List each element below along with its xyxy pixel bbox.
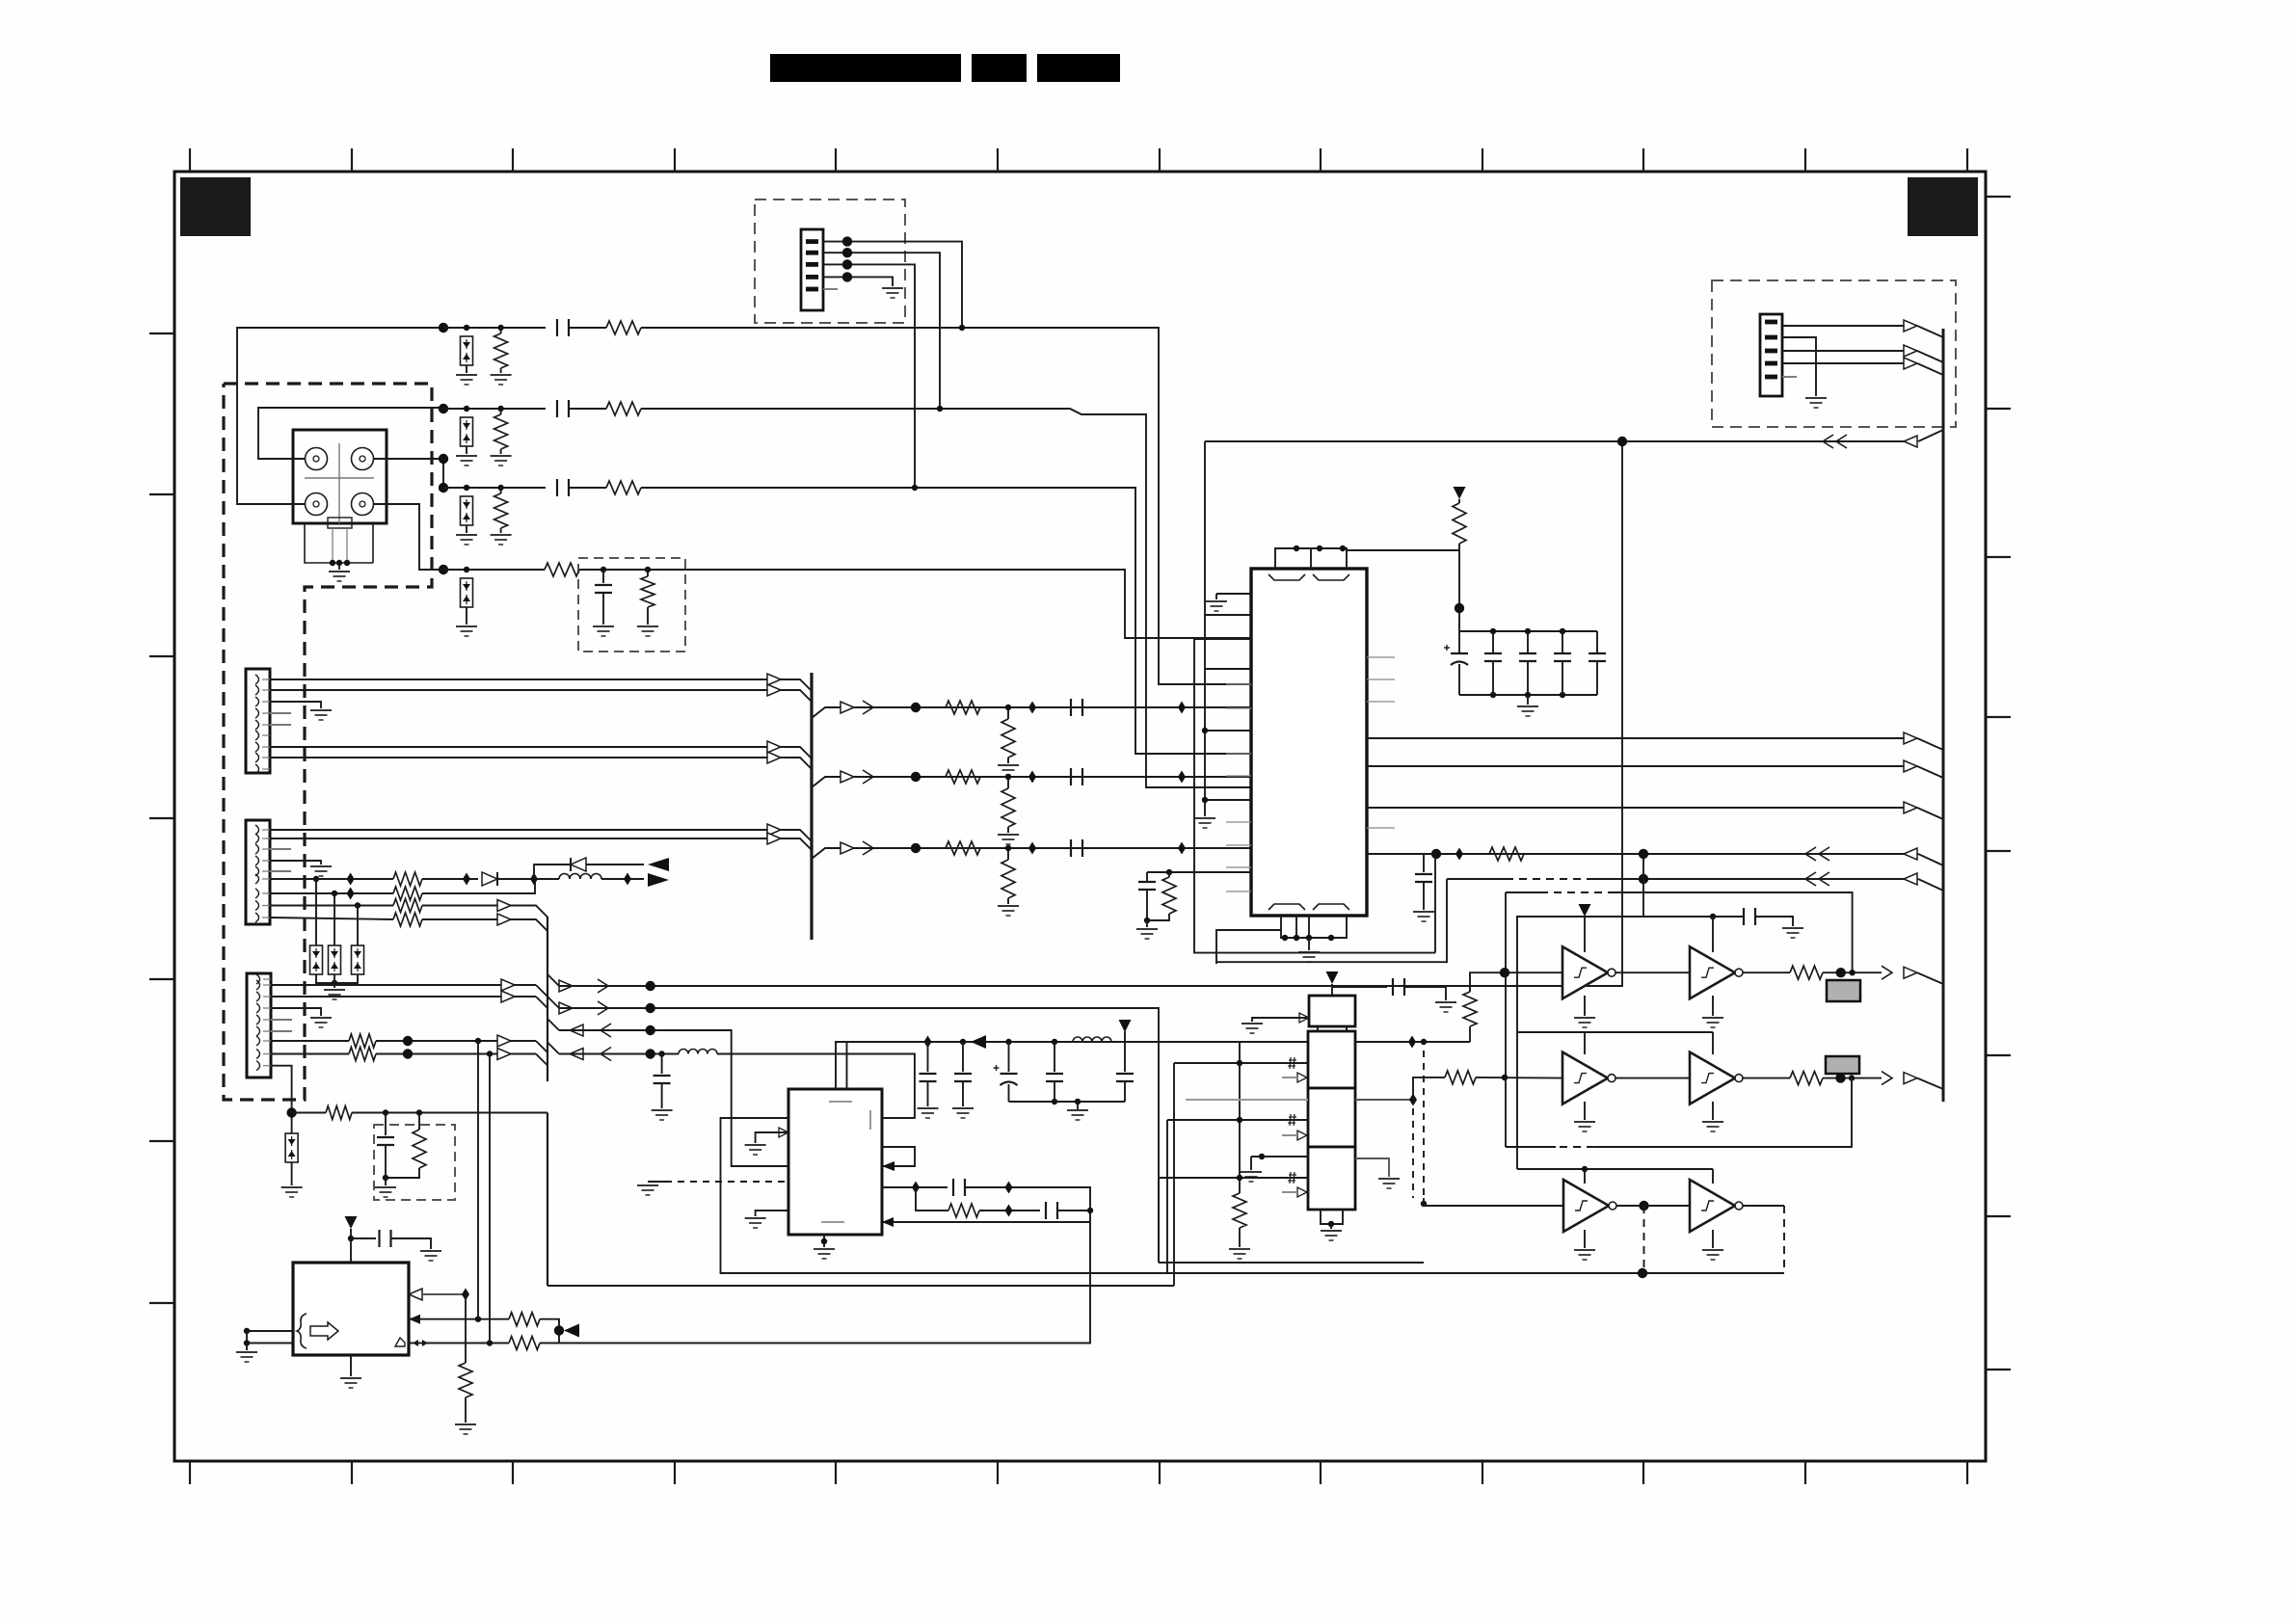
wire U4 b2 out up	[1413, 1078, 1445, 1100]
junction V1286 a	[1237, 1060, 1242, 1066]
capacitor C-F2	[377, 1137, 394, 1145]
wire row3 mid	[569, 487, 606, 489]
wire R25 lower	[1239, 1228, 1241, 1247]
wire U5A to U5B	[1615, 971, 1690, 973]
arrow CN3 pin2	[767, 833, 781, 844]
wire rail to vcc2	[1111, 1031, 1125, 1042]
wire row1 segment	[443, 327, 546, 329]
junction U1 bot c	[1306, 935, 1312, 941]
wire CN2 pin2	[270, 689, 767, 691]
arrow net458	[1904, 436, 1917, 447]
wire dashed drop a	[1412, 1108, 1414, 1198]
junction row1 CN1	[959, 325, 965, 331]
wire bus out diagonal row6	[812, 777, 841, 787]
ground CN2 pin3	[310, 710, 332, 720]
ground U4 b2 out2	[1378, 1179, 1400, 1188]
junction row3 feed	[439, 454, 448, 464]
wire C2b lower	[962, 1082, 964, 1106]
wire row A long	[559, 441, 1622, 986]
wire D3 to ground	[466, 525, 467, 533]
wire U2 clk gnd	[756, 1132, 788, 1143]
title text block (redacted bar 3)	[1037, 54, 1120, 82]
wire CN2 pin3 to ground	[270, 702, 321, 708]
junction U3 left b	[244, 1340, 250, 1345]
wire U1 bottom bracket	[1281, 916, 1347, 938]
arrow row6 out	[841, 771, 854, 783]
chevron row6	[863, 770, 873, 784]
capacitor C-bank0	[1484, 653, 1502, 661]
wire inv2b power	[1712, 1032, 1714, 1054]
wire cap bank top rail	[1459, 630, 1597, 632]
capacitor C-bank1	[1519, 653, 1536, 661]
capacitor C-bank2	[1554, 653, 1571, 661]
arrow row5 out	[841, 702, 854, 713]
junction row1 in	[1500, 968, 1509, 977]
junction esd tap pin6	[313, 876, 319, 882]
IC U1 top notch marks	[1268, 574, 1305, 580]
resistor R24 (pullup)	[1463, 992, 1477, 1026]
ground CN4 pin3	[310, 1018, 332, 1027]
junction rail cap3	[1052, 1039, 1057, 1045]
wire C-bank1 lower	[1527, 662, 1529, 695]
junction F1 res tap	[645, 567, 651, 572]
IC U1 left pin stubs	[1226, 594, 1251, 891]
wire esd gnd lead	[334, 974, 335, 988]
capacitor C-L2	[654, 1076, 671, 1083]
resistor R1a	[494, 333, 508, 368]
junction esd common	[332, 980, 337, 986]
connector CN3 (9-pin)	[246, 820, 270, 924]
clock pin marker U2	[779, 1128, 788, 1137]
wire J1 bottom-right to row4	[373, 504, 443, 570]
junction net912	[1639, 874, 1648, 884]
connector J1 (RCA jack block)	[293, 430, 387, 563]
bottom border tick marks	[190, 1461, 1967, 1484]
wire J1 bottom-left to row1	[237, 328, 443, 504]
wire rail2 drop	[1516, 917, 1518, 1169]
wire CN4 pin2	[271, 996, 536, 998]
junction net1321	[1638, 1268, 1647, 1278]
wire R21 lower	[465, 1397, 467, 1423]
arrow row2 out	[1904, 1073, 1917, 1084]
ground cap group	[1067, 1110, 1088, 1120]
wire C-pol lower	[1458, 664, 1460, 695]
resistor R17 (supply)	[1453, 503, 1466, 544]
junction CN1 pin1	[842, 236, 852, 246]
wire pin8 diagonal	[536, 1054, 547, 1066]
junction cap bank top 0	[1490, 628, 1496, 634]
resistor R5c	[946, 701, 980, 714]
wire U3 bottom stem	[350, 1355, 352, 1376]
ground U5A	[1574, 1018, 1595, 1027]
wire C24 out	[1755, 917, 1793, 926]
ground R2a	[491, 456, 512, 466]
dashed enclosure connector area (L-shaped)	[224, 384, 432, 1100]
wire R10 out	[422, 878, 478, 880]
wire F2 gnd lead	[385, 1178, 387, 1185]
wire row B long	[559, 1008, 1159, 1263]
wire U1 top pins bracket	[1275, 548, 1347, 569]
junction diamond row6 a	[1028, 771, 1036, 784]
wire R2a to ground	[500, 449, 502, 454]
IC U1 (main processor)	[1251, 569, 1367, 916]
ground CN1	[882, 288, 903, 298]
wire U4 b2 out	[1355, 1099, 1413, 1101]
ground D10	[281, 1187, 303, 1197]
arrow CN2 pin7	[767, 741, 781, 753]
arrow U3 pin top	[409, 1289, 422, 1300]
ground cap bank	[1517, 706, 1538, 716]
resistor R10	[393, 872, 422, 886]
dashed box filter F2	[374, 1125, 455, 1200]
resistor R15	[349, 1048, 376, 1061]
junction diamond U4 top out	[1408, 1036, 1416, 1049]
wire CN2 pin8 diagonal to bus	[781, 758, 812, 769]
wire CN2 pin7 diagonal to bus	[781, 747, 812, 758]
wire CN1 pin3	[823, 264, 915, 488]
arrow net912	[1904, 873, 1917, 885]
resistor R26	[1445, 1071, 1476, 1084]
wire inv1b gnd stem	[1712, 996, 1714, 1016]
wire row2 feedback end	[1506, 1146, 1556, 1148]
wire VCC3 stem	[350, 1229, 352, 1263]
junction U2 bottom	[821, 1238, 827, 1244]
power arrow VCC2	[1119, 1020, 1132, 1032]
arrow U2 pin1210 (input)	[882, 1161, 894, 1171]
junction diamond video node	[530, 873, 538, 886]
wire U4 out top	[1355, 1041, 1470, 1043]
junction fb node	[1087, 1208, 1093, 1213]
junction row1 out	[1836, 968, 1846, 977]
wire C2c lower	[1054, 1082, 1055, 1102]
chevron net912 b	[1819, 872, 1829, 886]
wire U1 pin830g	[1205, 799, 1251, 801]
wire U3 pin bot	[292, 1343, 294, 1344]
wire net912 b	[1592, 878, 1918, 880]
arrow row D	[570, 1049, 583, 1060]
junction J1 shield a	[330, 560, 335, 566]
wire U5B out	[1743, 971, 1790, 973]
junction cap bank top 2	[1560, 628, 1565, 634]
ground U4 bottom	[1321, 1231, 1342, 1240]
wire C-pol leads	[1458, 631, 1460, 652]
junction cap bank bottom 0	[1490, 692, 1496, 698]
capacitor C24 (series)	[1744, 908, 1755, 925]
wire row2 diagonal	[1917, 1078, 1943, 1089]
wire C23 out	[1404, 987, 1446, 1000]
chevron row C	[601, 1024, 611, 1037]
wire CN3 pin2	[270, 838, 767, 839]
wire inv1a gnd stem	[1584, 996, 1586, 1016]
stub CN4 pin5	[271, 1030, 292, 1032]
IC U4 notch links	[1317, 1026, 1319, 1031]
junction U4 b3 gnd	[1259, 1154, 1265, 1159]
capacitor C-bank3	[1589, 653, 1606, 661]
power arrow VCC5	[1579, 904, 1591, 917]
wire U1 top to supply	[1347, 550, 1459, 631]
wire net912 a	[1447, 878, 1506, 880]
wire CN5 pin4 diagonal	[1917, 363, 1943, 375]
junction row1 res tap	[497, 325, 503, 331]
wire U2 out1232	[882, 1186, 948, 1188]
chevron net458 a	[1823, 435, 1833, 448]
ground D1	[456, 375, 477, 385]
junction F1 cap tap	[601, 567, 606, 572]
wire C-bank3 lower	[1596, 662, 1598, 695]
wire R13 to bus diagonal	[422, 919, 547, 931]
wire row4 segment	[443, 569, 545, 571]
wire CN3 pin3 to ground	[270, 861, 321, 865]
wire R5d gnd lead	[1007, 758, 1009, 763]
wire C-bank3 leads	[1596, 631, 1598, 652]
resistor R27	[1790, 966, 1823, 979]
junction row4 esd tap	[464, 567, 469, 572]
schmitt inverter U5B	[1690, 946, 1743, 998]
wire CN1 pin1	[823, 242, 962, 328]
resistor R21	[459, 1363, 472, 1397]
bus B3 (vertical)	[1942, 329, 1945, 1102]
wire inv1b power	[1712, 917, 1714, 952]
wire row2 mid	[569, 408, 606, 410]
arrow CN5 pin4	[1904, 358, 1917, 369]
resistor R20	[948, 1204, 979, 1217]
stub U4 b3 clk	[1282, 1191, 1297, 1193]
power arrow VCC1	[1454, 487, 1466, 499]
junction row3 mid	[1639, 1201, 1648, 1211]
wire U1 out1 diagonal	[1917, 738, 1943, 750]
ground D5-D7	[324, 990, 345, 999]
wire U5C to U5D	[1615, 1078, 1690, 1079]
IC U2 inner mark right	[869, 1110, 871, 1130]
wire U1 pin gnd top-left	[1216, 593, 1251, 595]
wire row3 in	[1424, 1204, 1563, 1206]
junction esd tap pin8	[355, 902, 360, 908]
junction J1 shield c	[344, 560, 350, 566]
ground U2 clk	[745, 1145, 766, 1155]
arrow U1 out1	[1904, 732, 1917, 744]
junction U1 top c	[1340, 545, 1346, 551]
IC U3	[293, 1263, 409, 1355]
wire CN5 pin1	[1782, 325, 1904, 327]
junction diamond R20	[1004, 1205, 1012, 1217]
wire row4 to IC1	[579, 570, 1251, 638]
junction diamond U3 top	[462, 1289, 469, 1301]
wire row2 feedback dashed	[1556, 1146, 1594, 1148]
wire net886	[1367, 853, 1918, 855]
ground C-F1	[593, 626, 614, 636]
wire CN2 pin2 diagonal to bus	[781, 690, 812, 702]
wire CN1 pin2	[823, 253, 940, 409]
dashed box filter F1	[578, 558, 685, 652]
wire V508 up	[489, 1054, 491, 1344]
wire V1239 down	[1194, 639, 1435, 953]
wire RC bl gnd lead	[1146, 920, 1148, 927]
junction cap group a	[1052, 1099, 1057, 1104]
wire R3a to ground	[500, 528, 502, 533]
wire R18 lead	[1168, 872, 1170, 877]
inductor L3	[1073, 1037, 1111, 1042]
junction F2 res tap	[416, 1109, 422, 1115]
arrow rail (solid left)	[971, 1035, 986, 1049]
wire U3 pin mid	[409, 1318, 509, 1320]
junction V1286 b	[1237, 1117, 1242, 1123]
top border tick marks	[190, 148, 1967, 173]
junction net886 b	[1639, 849, 1648, 859]
wire C2a lower	[927, 1082, 929, 1106]
junction R15 node	[403, 1049, 413, 1058]
wire C19 lower	[1423, 883, 1425, 910]
wire U3 pin top	[422, 1293, 466, 1295]
wire VCC1 lead	[1458, 499, 1460, 503]
pin glyph U4 b3	[1288, 1172, 1296, 1184]
wire CN4 pin2 diagonal	[536, 997, 547, 1008]
ground R25	[1229, 1249, 1250, 1259]
ground C2b	[952, 1108, 974, 1118]
bus B2 (vertical collector, lower)	[547, 1113, 548, 1287]
capacitor C2c	[1046, 1074, 1063, 1081]
wire U1 gnd pins vertical	[1204, 669, 1206, 816]
resistor R12	[393, 899, 422, 913]
connector CN2 (9-pin)	[246, 669, 270, 774]
ground U5E	[1574, 1250, 1595, 1260]
arrow net886	[1904, 848, 1917, 860]
wire C-bank2 lower	[1562, 662, 1563, 695]
power arrow VCC4	[1326, 971, 1339, 984]
ground R6d	[998, 835, 1019, 844]
junction CN1 pin2	[842, 248, 852, 257]
diode pack D6 (ESD)	[329, 945, 341, 974]
left border tick marks	[149, 333, 174, 1303]
wire V1489 link	[1434, 854, 1436, 953]
wire row5 rc	[854, 706, 1251, 708]
wire D8 out	[497, 878, 559, 880]
wire C22 out	[391, 1238, 432, 1249]
junction U1 bot a	[1282, 935, 1288, 941]
ground R21	[455, 1424, 476, 1434]
wire R3a lead	[500, 488, 502, 493]
wire CN3 pin1 diagonal to bus	[781, 830, 812, 841]
stub U4 b1 clk	[1282, 1077, 1297, 1078]
wire row D long	[559, 1053, 679, 1055]
arrow U3 pin mid (input)	[409, 1315, 420, 1324]
jumper pad row2	[1826, 1056, 1859, 1074]
capacitor C7c (series)	[1071, 839, 1082, 857]
wire fb return	[882, 1221, 1090, 1223]
wire R23 out	[540, 1343, 559, 1344]
arrow CN4 pin2	[501, 991, 515, 1002]
arrow row pin6	[497, 1035, 511, 1047]
diode pack D4 (ESD)	[461, 578, 473, 607]
wire drop join	[1423, 1198, 1425, 1204]
wire U1 out2 diagonal	[1917, 766, 1943, 778]
wire CN2 pin7	[270, 746, 767, 748]
wire row1 loop top	[1506, 891, 1540, 893]
wire R18 lower	[1147, 914, 1169, 920]
capacitor C18	[1138, 882, 1156, 890]
ground U3 left	[236, 1352, 257, 1362]
ground U3 bottom	[340, 1378, 361, 1388]
capacitor C-pol (electrolytic)	[1444, 645, 1468, 665]
wire row1 loop dashed	[1540, 891, 1613, 893]
diode pack D1 (ESD)	[461, 336, 473, 365]
junction V508 row	[487, 1051, 493, 1056]
capacitor C2d	[1116, 1074, 1134, 1081]
arrow clamp in (solid left)	[648, 858, 669, 871]
stub CN2 pin5	[270, 724, 291, 726]
diode pack D3 (ESD)	[461, 496, 473, 525]
wire U2 bottom stem	[823, 1235, 825, 1247]
ground U4 top pin	[1241, 1024, 1263, 1033]
wire U4 b3 in	[1159, 1177, 1308, 1179]
IC U4 block3	[1308, 1147, 1355, 1210]
junction node N9	[286, 1107, 296, 1117]
wire CN2 pin8	[270, 757, 767, 758]
junction diamond row6 b	[1178, 771, 1186, 784]
wire D1 to ground	[466, 365, 467, 373]
wire V1211	[1166, 1120, 1168, 1273]
wire V483 down	[465, 1294, 467, 1363]
ground R1a	[491, 375, 512, 385]
wire bus row D diagonal	[547, 1043, 559, 1054]
wire esd drop pin7	[334, 893, 335, 945]
junction diamond CN3 pin7	[347, 888, 355, 900]
wire U2 dashed pin end	[648, 1181, 665, 1183]
junction diamond row5 a	[1028, 702, 1036, 714]
capacitor C-pol2 (electrolytic)	[994, 1065, 1018, 1085]
arrow U2 pin1268 (input)	[882, 1217, 894, 1227]
power arrow VCC3	[345, 1216, 358, 1229]
wire R15 out	[376, 1053, 536, 1055]
wire R6d gnd lead	[1007, 827, 1009, 833]
wire C23 tap	[1332, 986, 1387, 988]
junction R5d tap	[1005, 705, 1011, 710]
wire U1 pin663 left	[1194, 638, 1251, 640]
wire R24 bottom	[1469, 1026, 1471, 1042]
wire R-F2 leads	[418, 1113, 420, 1131]
wire R7d lead	[1007, 848, 1009, 860]
wire net458	[1205, 440, 1841, 442]
wire R1a lead	[500, 328, 502, 333]
wire inv2a power	[1584, 1032, 1586, 1054]
resistor R6c	[946, 770, 980, 784]
ground R7d	[998, 906, 1019, 916]
wire R28 out	[1823, 1078, 1882, 1079]
wire CN5 pin3 diagonal	[1917, 351, 1943, 362]
wire U1 out2	[1367, 765, 1904, 767]
junction net458	[1617, 437, 1627, 446]
wire cap group bottom rail	[1009, 1101, 1126, 1103]
wire R12 to bus diagonal	[422, 906, 547, 918]
stub U4 b2 in-through	[1186, 1099, 1308, 1101]
wire N9 to bus	[292, 1112, 326, 1114]
wire C2c lead	[1054, 1042, 1055, 1072]
capacitor C2b	[954, 1074, 972, 1081]
capacitor C5c (series)	[1071, 699, 1082, 716]
wire inv1a power	[1584, 917, 1586, 952]
wire esd common	[316, 974, 358, 983]
wire U1 pin758g	[1205, 730, 1251, 732]
arrow CN3 pin1	[767, 824, 781, 836]
wire U4 bottom gnd lead	[1330, 1224, 1332, 1229]
diode D9 (reversed)	[570, 858, 572, 871]
IC U2	[788, 1089, 882, 1235]
junction row3 res tap	[497, 485, 503, 491]
wire U1 bottom gnd lead	[1308, 938, 1310, 950]
wire net458 right	[1841, 440, 1904, 442]
arrow video out (solid right)	[648, 873, 669, 887]
junction rail3	[1582, 1166, 1588, 1172]
resistor R2b	[606, 402, 641, 415]
